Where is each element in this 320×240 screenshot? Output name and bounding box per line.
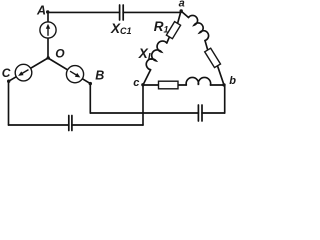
wire coil to node b (c-b branch)	[211, 84, 225, 86]
svg-text:O: O	[55, 47, 65, 61]
wire XL coil to node c	[143, 70, 151, 85]
node a dot	[180, 9, 183, 12]
wire up to node b	[224, 85, 226, 113]
arrow EMF phase C	[17, 68, 30, 78]
EMF source circle phase C	[15, 64, 32, 81]
capacitor XC1	[120, 5, 124, 20]
wire O to B diagonal	[48, 58, 90, 84]
EMF source circle phase A	[40, 22, 56, 38]
EMF source circle phase B	[66, 66, 83, 83]
wire up to node c	[142, 85, 144, 125]
arrow EMF phase B	[69, 69, 82, 79]
node A dot	[46, 10, 49, 13]
svg-text:XC1: XC1	[110, 21, 132, 36]
wire resistor to node b (a-b branch)	[218, 66, 225, 85]
wire B down	[89, 84, 91, 113]
svg-text:R1: R1	[154, 19, 169, 34]
wire top line A to XC1	[48, 11, 120, 13]
wire O to C diagonal	[9, 58, 49, 81]
wire a to R1	[178, 11, 181, 23]
node b dot	[222, 83, 225, 86]
resistor (a-b branch)	[205, 48, 221, 67]
svg-text:C: C	[2, 66, 11, 80]
inductor XL coil (a-c branch)	[146, 41, 167, 70]
inductor coil c-b branch	[186, 77, 211, 85]
capacitor C-phase bottom	[69, 116, 72, 131]
resistor R1 (a-c branch)	[166, 22, 180, 39]
svg-text:XL: XL	[138, 46, 154, 63]
wire a to coil (a-b branch)	[181, 11, 189, 18]
svg-text:A: A	[36, 4, 46, 18]
inductor coil a-b branch	[189, 15, 209, 40]
resistor (c-b branch)	[159, 81, 179, 89]
capacitor B-phase bottom	[198, 105, 202, 121]
wire R1 to XL coil	[167, 37, 170, 43]
wire c to resistor (c-b branch)	[143, 84, 159, 86]
wire XC1 to node a	[123, 11, 181, 13]
node B dot	[89, 82, 92, 85]
arrow EMF phase A	[46, 24, 50, 36]
wire resistor to coil (c-b branch)	[178, 84, 186, 86]
node C dot	[7, 80, 10, 83]
wire B-phase horizontal right part	[202, 112, 225, 114]
wire bottom line C-phase left part	[9, 124, 69, 126]
svg-text:c: c	[133, 77, 139, 89]
svg-text:b: b	[229, 75, 236, 87]
wire B-phase horizontal left part	[90, 112, 198, 114]
wire coil to resistor (a-b branch)	[205, 41, 208, 51]
wire C down to bottom line	[8, 81, 10, 125]
wire bottom line C-phase right part	[72, 124, 143, 126]
wire phase A vertical	[47, 12, 49, 58]
node O dot	[47, 56, 50, 59]
svg-text:B: B	[95, 69, 104, 83]
node c dot	[141, 83, 144, 86]
svg-text:a: a	[179, 0, 185, 9]
